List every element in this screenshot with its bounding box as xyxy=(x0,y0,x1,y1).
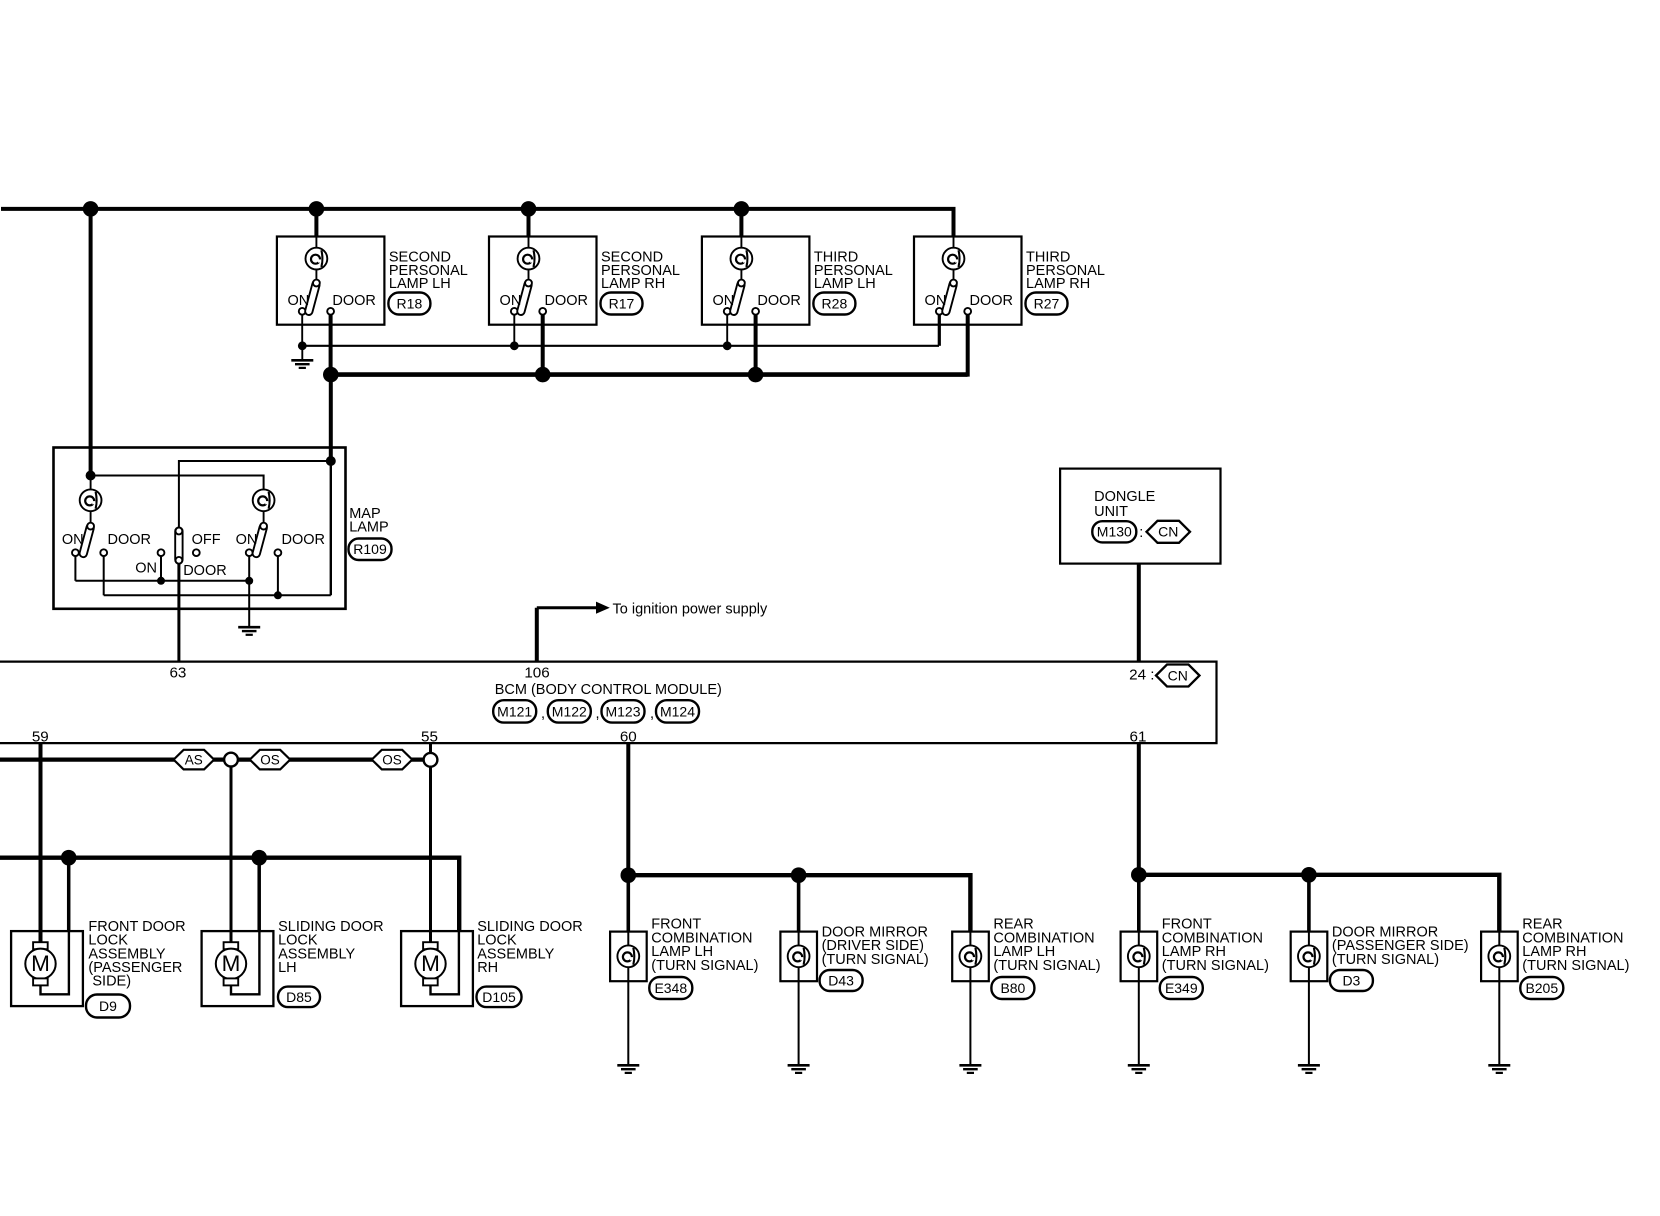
wire xyxy=(67,858,71,931)
junction xyxy=(157,577,165,585)
svg-text:LAMP LH: LAMP LH xyxy=(814,276,876,292)
svg-text:AS: AS xyxy=(185,752,203,767)
wire: lamp switch ON net xyxy=(302,345,939,347)
svg-text:DOOR: DOOR xyxy=(282,532,326,548)
switch: map lamp 3-position (ON/OFF/DOOR) xyxy=(158,549,165,556)
svg-text:,: , xyxy=(650,706,654,722)
svg-text:D9: D9 xyxy=(99,998,117,1014)
svg-text:(TURN SIGNAL): (TURN SIGNAL) xyxy=(1522,958,1629,974)
junction xyxy=(510,341,519,350)
svg-text:M: M xyxy=(31,951,50,976)
junction xyxy=(323,367,339,383)
label D43 xyxy=(820,925,929,992)
ground (E348) xyxy=(617,1064,639,1067)
junction xyxy=(521,201,537,217)
svg-text:,: , xyxy=(541,706,545,722)
label D9 xyxy=(86,919,186,1018)
ground (D3) xyxy=(1298,1064,1320,1067)
wire: feed to B80 xyxy=(969,875,973,956)
svg-text:60: 60 xyxy=(620,729,637,746)
svg-text::: : xyxy=(1139,525,1143,541)
junction xyxy=(723,341,732,350)
wire: map lamp switch output to BCM pin 63 xyxy=(177,564,180,662)
splice xyxy=(424,753,438,767)
wire: BCM pin 106 to ignition power supply xyxy=(535,608,539,662)
svg-text:DOOR: DOOR xyxy=(183,563,227,579)
label D105 xyxy=(477,919,583,1007)
wire: BCM pin 55 through splice xyxy=(429,743,432,753)
label R27 xyxy=(1026,250,1105,315)
svg-text:M124: M124 xyxy=(660,703,695,719)
label E349 xyxy=(1160,917,1269,999)
svg-text:DOOR: DOOR xyxy=(108,532,152,548)
svg-text:BCM (BODY CONTROL MODULE): BCM (BODY CONTROL MODULE) xyxy=(495,682,722,698)
svg-text:(TURN SIGNAL): (TURN SIGNAL) xyxy=(993,958,1100,974)
svg-text:DOOR: DOOR xyxy=(332,293,376,309)
svg-text:61: 61 xyxy=(1130,729,1147,746)
svg-text:UNIT: UNIT xyxy=(1094,504,1128,520)
junction xyxy=(274,591,282,599)
svg-text:R17: R17 xyxy=(609,295,635,311)
svg-text:M: M xyxy=(421,951,440,976)
label R109 xyxy=(349,506,392,560)
wire: R18 DOOR contact to door bus xyxy=(329,315,333,377)
connectors M121,M122,M123,M124 xyxy=(493,700,699,722)
label E348 xyxy=(649,917,758,999)
svg-text:LH: LH xyxy=(278,960,297,976)
junction xyxy=(734,201,750,217)
ground (D43) xyxy=(788,1064,810,1067)
svg-text:(TURN SIGNAL): (TURN SIGNAL) xyxy=(1332,952,1439,968)
wire: BCM pin 61 to RH turn signal bus xyxy=(1137,743,1141,875)
wire: feed to D3 xyxy=(1307,875,1311,956)
svg-text:CN: CN xyxy=(1168,667,1188,683)
wire: R17 ON contact to ground net xyxy=(513,315,515,346)
lamp: map lamp right bulb xyxy=(253,489,275,511)
BCM (body control module) box xyxy=(0,662,1217,744)
svg-text:ON: ON xyxy=(236,532,258,548)
lamp R18 (SECOND PERSONAL LAMP LH) xyxy=(277,237,385,325)
ground (B80) xyxy=(959,1064,981,1067)
ground (B205) xyxy=(1488,1064,1510,1067)
motor: FRONT door lock assembly D9 xyxy=(11,931,83,1006)
wire: to right map bulb xyxy=(91,476,264,491)
wire: E348 to ground xyxy=(627,956,629,1065)
ground (map lamp) xyxy=(248,581,250,627)
lamp B80 (turn signal) xyxy=(952,932,989,982)
lamp R17 (SECOND PERSONAL LAMP RH) xyxy=(489,237,597,325)
svg-text:D3: D3 xyxy=(1342,972,1360,988)
junction xyxy=(791,867,807,883)
wire: R17 DOOR contact to door bus xyxy=(541,315,545,377)
ground (E349) xyxy=(1128,1064,1150,1067)
svg-text:D85: D85 xyxy=(286,989,312,1005)
wire: BCM pin 59 to front door lock motor xyxy=(39,743,43,943)
junction xyxy=(309,201,325,217)
wire: door bus riser inside map lamp xyxy=(330,461,332,595)
svg-text:(TURN SIGNAL): (TURN SIGNAL) xyxy=(1162,958,1269,974)
svg-text:B80: B80 xyxy=(1000,980,1025,996)
wire: feed to B205 xyxy=(1498,875,1502,956)
ground (interior lamp ground) xyxy=(301,346,303,361)
label R18 xyxy=(388,250,467,315)
wire: RH turn signal bus xyxy=(1139,875,1500,932)
svg-text:ON: ON xyxy=(287,293,309,309)
connector OS xyxy=(250,750,290,770)
wire: D3 to ground xyxy=(1308,956,1310,1065)
wire: E349 to ground xyxy=(1138,956,1140,1065)
svg-text:E348: E348 xyxy=(654,980,687,996)
svg-text:LAMP LH: LAMP LH xyxy=(389,276,451,292)
node: map lamp power node xyxy=(86,471,96,481)
wire: R28 ON contact to ground net xyxy=(726,315,728,346)
svg-text:ON: ON xyxy=(925,293,947,309)
wire: LH turn signal bus xyxy=(628,875,970,932)
wire: dongle unit to BCM pin 24 xyxy=(1137,564,1141,662)
wire: R18 ON contact to ground net xyxy=(301,315,303,346)
svg-text:LAMP RH: LAMP RH xyxy=(1026,276,1090,292)
splice xyxy=(224,753,238,767)
label R28 xyxy=(813,250,892,315)
wire: door lock return bus xyxy=(0,858,459,931)
junction xyxy=(251,850,267,866)
junction xyxy=(61,850,77,866)
arrow: to ignition power supply xyxy=(596,602,610,614)
label B80 xyxy=(991,917,1100,999)
svg-text:OFF: OFF xyxy=(192,532,221,548)
wire: to center switch xyxy=(179,461,331,529)
svg-text:DOOR: DOOR xyxy=(757,293,801,309)
junction xyxy=(748,367,764,383)
svg-text:D43: D43 xyxy=(828,972,854,988)
svg-text:M122: M122 xyxy=(552,703,587,719)
svg-text:R18: R18 xyxy=(397,295,423,311)
wire: R28 DOOR contact to door bus xyxy=(754,315,758,377)
wire: R27 DOOR contact to door bus xyxy=(966,315,970,377)
label D85 xyxy=(278,919,384,1007)
wire: BCM pin 60 to LH turn signal bus xyxy=(626,743,630,875)
svg-text:LAMP RH: LAMP RH xyxy=(601,276,665,292)
junction xyxy=(1131,867,1147,883)
svg-text:M121: M121 xyxy=(497,703,532,719)
wire: B80 to ground xyxy=(969,956,971,1065)
lamp R27 (THIRD PERSONAL LAMP RH) xyxy=(914,237,1022,325)
svg-text:ON: ON xyxy=(500,293,522,309)
wire: door lock AS/OS net xyxy=(0,757,424,761)
lamp: map lamp left bulb xyxy=(90,476,92,491)
wire: feed to E349 xyxy=(1137,875,1141,956)
junction (R18 ON to ground) xyxy=(298,341,307,350)
svg-text:E349: E349 xyxy=(1165,980,1198,996)
svg-text:R109: R109 xyxy=(353,541,387,557)
svg-text:SIDE): SIDE) xyxy=(92,974,131,990)
svg-text:R28: R28 xyxy=(822,295,848,311)
svg-text:DONGLE: DONGLE xyxy=(1094,489,1156,505)
svg-text:59: 59 xyxy=(32,729,49,746)
svg-text:OS: OS xyxy=(382,752,402,767)
wire: door signal bus xyxy=(331,372,968,377)
label B205 xyxy=(1520,917,1629,999)
lamp D3 (turn signal) xyxy=(1291,932,1328,982)
wire: feed to E348 xyxy=(626,875,630,956)
svg-text:63: 63 xyxy=(169,664,186,681)
junction xyxy=(83,201,99,217)
label R17 xyxy=(601,250,680,315)
svg-text:D105: D105 xyxy=(482,989,516,1005)
svg-text:To ignition power supply: To ignition power supply xyxy=(613,602,769,618)
lamp E349 (turn signal) xyxy=(1121,932,1158,982)
wire: map lamp ON net to ground xyxy=(74,556,76,581)
wire: feed to lamp R28 xyxy=(739,209,743,237)
wire: door bus down into map lamp xyxy=(329,375,333,461)
motor: SLIDING door lock assembly D85 xyxy=(202,931,274,1006)
junction xyxy=(621,867,637,883)
lamp B205 (turn signal) xyxy=(1481,932,1518,982)
svg-text:DOOR: DOOR xyxy=(970,293,1014,309)
junction xyxy=(535,367,551,383)
svg-text:RH: RH xyxy=(477,960,498,976)
svg-text:(TURN SIGNAL): (TURN SIGNAL) xyxy=(651,958,758,974)
connector OS xyxy=(372,750,412,770)
svg-text:ON: ON xyxy=(62,532,84,548)
map lamp R109 assembly xyxy=(54,448,346,609)
svg-text:OS: OS xyxy=(260,752,280,767)
wire: feed to D43 xyxy=(797,875,801,956)
lamp D43 (turn signal) xyxy=(780,932,817,982)
svg-text:,: , xyxy=(596,706,600,722)
svg-text:DOOR: DOOR xyxy=(545,293,589,309)
svg-text:ON: ON xyxy=(712,293,734,309)
svg-text:(TURN SIGNAL): (TURN SIGNAL) xyxy=(822,952,929,968)
svg-text:24 :: 24 : xyxy=(1129,667,1154,684)
wire: map lamp DOOR net xyxy=(103,556,105,595)
svg-text:106: 106 xyxy=(524,664,549,681)
wire: B205 to ground xyxy=(1498,956,1500,1065)
wire: D43 to ground xyxy=(798,956,800,1065)
junction xyxy=(1301,867,1317,883)
svg-text:CN: CN xyxy=(1158,524,1178,540)
wire: feed to lamp R18 xyxy=(314,209,318,237)
wire: feed to lamp R17 xyxy=(527,209,531,237)
svg-text:ON: ON xyxy=(135,561,157,577)
svg-text:M: M xyxy=(222,951,241,976)
svg-text:LAMP: LAMP xyxy=(349,520,389,536)
svg-text:55: 55 xyxy=(421,729,438,746)
label D3 xyxy=(1330,925,1469,992)
svg-text:R27: R27 xyxy=(1034,295,1060,311)
lamp R28 (THIRD PERSONAL LAMP LH) xyxy=(702,237,810,325)
wire: feed to lamp R27 xyxy=(953,237,955,251)
wire: feed to map lamp xyxy=(89,209,93,476)
motor: SLIDING door lock assembly D105 xyxy=(401,931,473,1006)
wire xyxy=(257,858,261,931)
dongle unit M130 xyxy=(1060,469,1220,564)
connector AS xyxy=(174,750,215,770)
junction xyxy=(245,577,253,585)
wire: R27 ON contact to ground net xyxy=(938,315,941,346)
wire: sliding door LH feed xyxy=(230,766,233,943)
lamp E348 (turn signal) xyxy=(610,932,647,982)
svg-text:M130: M130 xyxy=(1097,524,1132,540)
svg-text:B205: B205 xyxy=(1525,980,1558,996)
node: door-bus node inside map lamp xyxy=(326,456,336,466)
svg-text:M123: M123 xyxy=(605,703,640,719)
wire: battery power bus (top) xyxy=(1,209,954,237)
